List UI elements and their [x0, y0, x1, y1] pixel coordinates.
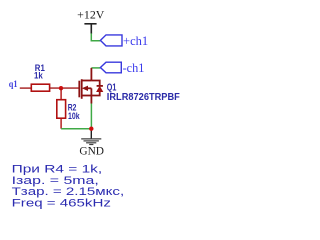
wire +12V to +ch1 (green)	[91, 33, 100, 40]
wire R1 to gate	[50, 87, 80, 89]
svg-text:1k: 1k	[34, 71, 44, 81]
wire drain to -ch1 (green)	[91, 67, 100, 69]
net flag -ch1	[100, 62, 121, 73]
svg-text:-ch1: -ch1	[123, 61, 145, 75]
resistor R1	[31, 84, 49, 91]
svg-text:Freq = 465kHz: Freq = 465kHz	[12, 198, 111, 210]
power symbol +12V bar	[84, 24, 96, 34]
svg-text:Тзар. = 2.15мкс,: Тзар. = 2.15мкс,	[12, 186, 125, 198]
wire junction to R2	[60, 88, 62, 100]
svg-text:+12V: +12V	[77, 8, 105, 22]
svg-text:IRLR8726TRPBF: IRLR8726TRPBF	[107, 92, 180, 103]
svg-text:При R4 = 1k,: При R4 = 1k,	[12, 164, 103, 176]
svg-text:GND: GND	[79, 146, 104, 158]
wire R2 to source node (green)	[61, 128, 91, 130]
wire q1 to R1	[20, 87, 32, 89]
svg-text:Iзар. = 5ma,: Iзар. = 5ma,	[12, 175, 99, 187]
net flag +ch1	[100, 35, 122, 46]
Q1 body arrow	[82, 86, 88, 91]
transistor Q1 MOSFET body	[79, 68, 103, 104]
svg-text:+ch1: +ch1	[123, 34, 148, 48]
svg-text:q1: q1	[9, 80, 18, 90]
Q1 body diode triangle	[96, 86, 103, 92]
wire source to GND (green)	[90, 104, 92, 129]
junction node at R2 top	[59, 86, 63, 90]
svg-text:10k: 10k	[68, 111, 80, 121]
resistor R2	[57, 100, 66, 119]
junction node at GND	[89, 127, 93, 131]
ground earth bars	[81, 139, 101, 145]
ground GND stem	[90, 130, 92, 139]
wire R2 bottom lead	[60, 118, 62, 129]
